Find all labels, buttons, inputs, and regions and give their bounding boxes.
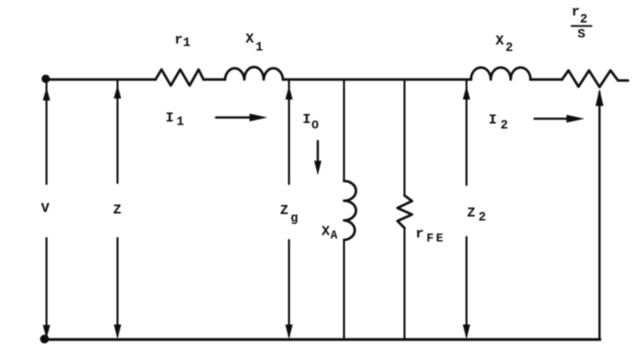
arrow I2 current direction — [535, 115, 585, 123]
label Z — [113, 203, 121, 219]
svg-text:I: I — [489, 113, 497, 129]
svg-text:I: I — [166, 111, 174, 127]
arrow Z (upper segment with up arrowhead) — [114, 81, 121, 183]
svg-text:Z: Z — [113, 203, 121, 219]
resistor r1 — [156, 70, 204, 86]
label V — [41, 201, 50, 217]
wire top bus middle segment — [283, 78, 471, 81]
label X2 — [496, 34, 514, 56]
svg-text:I: I — [303, 112, 311, 128]
label r2/S (fraction) — [572, 5, 592, 42]
inductor X1 — [225, 67, 283, 80]
wire between X2 and r2/S — [531, 78, 563, 81]
wire right edge with up arrowhead into r2/S tap — [596, 89, 604, 340]
arrow I0 current direction (down) — [314, 141, 321, 175]
arrow V (lower segment with down arrowhead) — [43, 238, 50, 339]
svg-text:2: 2 — [479, 211, 487, 225]
svg-text:Z: Z — [280, 203, 288, 219]
label I2 — [489, 113, 509, 133]
arrow Z (lower segment with down arrowhead) — [114, 238, 121, 339]
svg-text:S: S — [578, 27, 586, 42]
label I1 — [166, 111, 185, 130]
svg-text:2: 2 — [580, 13, 588, 27]
arrow Z2 (upper segment with up arrowhead) — [463, 81, 470, 185]
label rFE — [416, 227, 444, 246]
svg-text:A: A — [331, 230, 338, 243]
label XA — [322, 224, 338, 243]
svg-text:Z: Z — [467, 206, 475, 222]
label Z2 — [467, 206, 486, 225]
label X1 — [246, 32, 264, 55]
wire top bus left segment — [44, 78, 156, 81]
svg-text:F: F — [427, 232, 434, 246]
svg-text:X: X — [496, 34, 505, 50]
label I0 — [303, 112, 319, 133]
node top-left junction dot — [42, 75, 50, 83]
resistor rFE — [398, 196, 413, 229]
svg-text:2: 2 — [501, 119, 509, 133]
label r1 — [175, 33, 191, 51]
arrow Zg (lower segment with down arrowhead) — [285, 240, 292, 339]
svg-text:r: r — [572, 5, 580, 21]
wire bottom bus — [44, 338, 600, 341]
svg-text:X: X — [322, 224, 331, 240]
inductor XA — [344, 181, 356, 240]
resistor r2/S — [562, 70, 628, 87]
svg-text:E: E — [436, 232, 443, 246]
svg-text:r: r — [416, 227, 424, 243]
wire XA branch upper — [343, 81, 345, 181]
svg-text:2: 2 — [506, 41, 514, 55]
node bottom-left junction dot — [40, 335, 49, 344]
svg-text:X: X — [246, 32, 255, 48]
svg-text:1: 1 — [256, 41, 264, 55]
wire rFE branch lower — [404, 228, 406, 339]
svg-text:r: r — [175, 33, 183, 49]
label Zg — [280, 203, 298, 226]
arrow V (upper segment with up arrowhead) — [43, 80, 50, 184]
svg-text:g: g — [291, 212, 299, 226]
wire rFE branch upper — [404, 81, 406, 196]
svg-text:O: O — [312, 119, 319, 133]
svg-text:1: 1 — [177, 115, 185, 129]
wire XA branch lower — [343, 240, 345, 339]
arrow Zg (upper segment with up arrowhead) — [285, 81, 292, 184]
arrow Z2 (lower segment with down arrowhead) — [463, 237, 470, 339]
inductor X2 — [471, 67, 531, 79]
arrow I1 current direction — [216, 114, 268, 122]
svg-text:V: V — [41, 201, 50, 217]
wire between r1 and X1 — [204, 78, 226, 81]
svg-text:1: 1 — [183, 36, 191, 50]
